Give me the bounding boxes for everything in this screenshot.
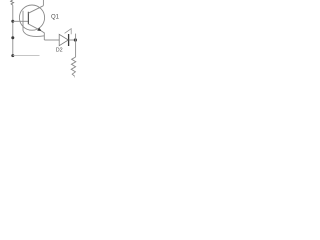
wire base bbox=[13, 20, 29, 22]
wire anode bbox=[44, 39, 59, 41]
wire emitter curve bbox=[41, 31, 45, 40]
wire cathode bbox=[69, 39, 76, 41]
wire right rail bbox=[75, 34, 77, 57]
node corner junction bbox=[11, 54, 14, 57]
wire collector up bbox=[42, 0, 44, 6]
wire left rail bbox=[12, 5, 14, 55]
diode D2 bbox=[59, 34, 68, 46]
node mid junction bbox=[11, 36, 14, 39]
wire right stub bbox=[65, 29, 72, 35]
svg-text:D2: D2 bbox=[56, 48, 63, 54]
resistor stub (cropped at top edge) bbox=[11, 0, 14, 5]
wire resistor lead bbox=[74, 76, 76, 77]
svg-text:Q1: Q1 bbox=[51, 15, 60, 21]
wire bottom horizontal bbox=[13, 55, 40, 57]
node diode junction bbox=[74, 38, 77, 41]
resistor R (bottom right) bbox=[71, 57, 76, 76]
transistor Q1 bbox=[19, 5, 44, 31]
wire swoop bbox=[23, 31, 44, 37]
node base junction bbox=[11, 20, 14, 23]
